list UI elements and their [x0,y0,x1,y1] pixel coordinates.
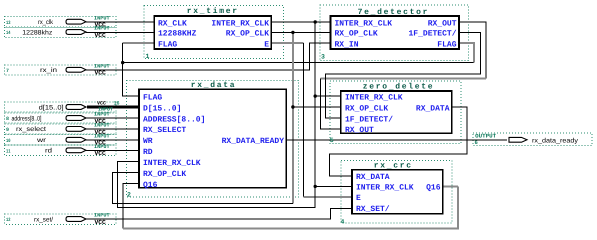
svg-text:RX_SELECT: RX_SELECT [143,126,186,135]
svg-text:E: E [356,194,361,203]
svg-text:RD: RD [143,148,153,157]
svg-text:RX_DATA: RX_DATA [356,173,390,182]
svg-text:Q16: Q16 [143,181,158,190]
svg-text:INTER_RX_CLK: INTER_RX_CLK [143,159,201,168]
svg-text:RX_DATA: RX_DATA [416,104,450,113]
svg-text:rx_data: rx_data [191,81,237,90]
svg-text:1: 1 [146,53,150,60]
svg-text:rx_select: rx_select [16,126,46,133]
svg-text:address[8..0]: address[8..0] [12,115,42,122]
svg-text:5: 5 [330,137,334,144]
svg-text:WR: WR [143,137,153,146]
svg-text:VCC: VCC [95,32,107,39]
svg-text:wr: wr [36,137,47,144]
svg-text:VCC: VCC [95,219,107,226]
svg-text:RX_DATA_READY: RX_DATA_READY [222,137,285,146]
svg-text:16: 16 [114,101,120,107]
svg-text:OUTPUT: OUTPUT [475,132,497,139]
svg-text:7e_detector: 7e_detector [358,8,430,17]
svg-text:6: 6 [475,139,478,146]
svg-text:INTER_RX_CLK: INTER_RX_CLK [345,93,403,102]
svg-text:4: 4 [341,219,345,226]
svg-text:12288khz: 12288khz [22,29,52,36]
svg-text:INPUT: INPUT [94,26,110,32]
svg-text:11: 11 [6,149,11,155]
svg-text:RX_OP_CLK: RX_OP_CLK [226,30,269,39]
svg-text:rx_clk: rx_clk [38,19,54,26]
svg-text:VCC: VCC [95,150,107,157]
svg-text:d[15..0]: d[15..0] [39,104,64,111]
svg-text:RX_CLK: RX_CLK [158,19,187,28]
svg-text:RX_OP_CLK: RX_OP_CLK [335,30,378,39]
svg-text:zero_delete: zero_delete [363,83,435,92]
svg-text:INTER_RX_CLK: INTER_RX_CLK [211,19,269,28]
svg-text:1F_DETECT/: 1F_DETECT/ [408,30,456,39]
svg-text:12: 12 [6,217,11,223]
svg-text:FLAG: FLAG [143,93,162,102]
svg-text:VCC: VCC [95,70,107,77]
svg-text:RX_OUT: RX_OUT [428,19,457,28]
svg-text:2: 2 [127,192,131,199]
svg-text:INPUT: INPUT [94,112,110,118]
svg-text:RX_OP_CLK: RX_OP_CLK [345,104,388,113]
svg-text:INPUT: INPUT [94,134,110,140]
svg-text:1F_DETECT/: 1F_DETECT/ [345,115,393,124]
svg-text:RX_OP_CLK: RX_OP_CLK [143,170,186,179]
svg-text:RX_OUT: RX_OUT [345,126,374,135]
svg-text:E: E [264,40,269,49]
svg-text:12288KHZ: 12288KHZ [158,30,197,39]
svg-text:14: 14 [6,30,11,36]
svg-text:INPUT: INPUT [94,144,110,150]
svg-text:FLAG: FLAG [158,40,177,49]
svg-text:rx_timer: rx_timer [187,7,239,16]
svg-text:INTER_RX_CLK: INTER_RX_CLK [356,184,414,193]
svg-text:10: 10 [6,138,11,144]
svg-text:INPUT: INPUT [94,123,110,129]
svg-text:3: 3 [321,54,325,61]
svg-text:9: 9 [6,127,9,133]
svg-text:7: 7 [6,68,9,74]
svg-text:rx_data_ready: rx_data_ready [532,137,579,144]
svg-text:13: 13 [6,20,11,26]
svg-text:ADDRESS[8..0]: ADDRESS[8..0] [143,115,205,124]
svg-text:RX_SET/: RX_SET/ [356,205,390,214]
svg-text:INPUT: INPUT [94,15,110,21]
svg-text:INPUT: INPUT [94,213,110,219]
svg-text:Q16: Q16 [426,184,441,193]
svg-text:rd: rd [45,148,52,155]
svg-text:rx_set/: rx_set/ [34,216,53,223]
svg-text:INTER_RX_CLK: INTER_RX_CLK [335,19,393,28]
svg-text:rx_in: rx_in [40,67,57,74]
svg-text:rx_crc: rx_crc [374,162,413,171]
svg-text:FLAG: FLAG [437,40,456,49]
svg-text:RX_IN: RX_IN [335,40,359,49]
svg-text:D[15..0]: D[15..0] [143,104,181,113]
svg-text:8: 8 [6,116,9,122]
svg-text:INPUT: INPUT [94,64,110,70]
